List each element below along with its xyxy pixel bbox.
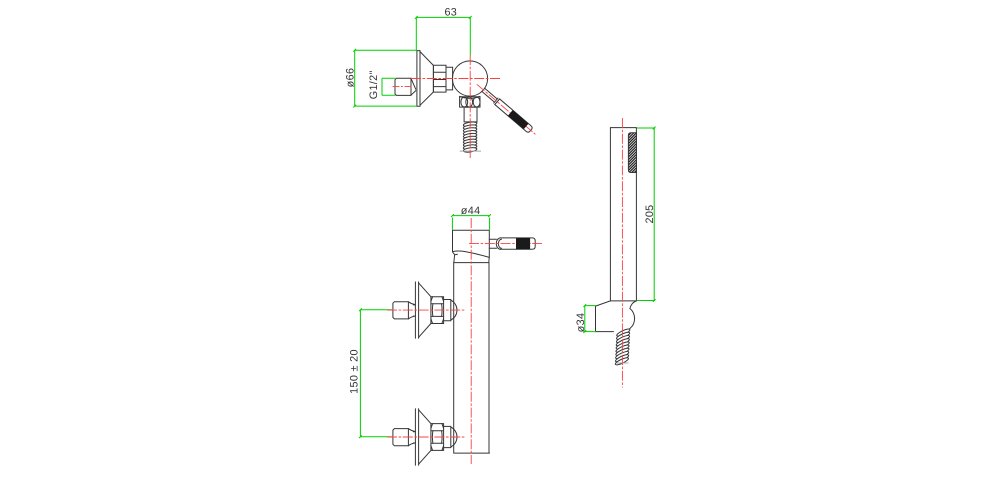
- thread label G1/2": [368, 70, 396, 99]
- svg-text:G1/2": G1/2": [368, 70, 380, 99]
- handle grip (front): [501, 238, 536, 249]
- shower hose coil (side view): [463, 121, 477, 153]
- hose fitting (side view): [464, 107, 477, 122]
- inlet pipe (side view): [395, 78, 411, 95]
- svg-text:ø44: ø44: [461, 205, 481, 217]
- shower bracket: [596, 301, 614, 332]
- lower wall union: [393, 409, 457, 465]
- red centerline: lower inlet axis: [387, 436, 466, 438]
- wall flange plate (side view): [417, 51, 420, 107]
- handle grip black band (side view): [508, 110, 528, 129]
- svg-text:205: 205: [644, 204, 656, 223]
- red centerline: shower axis: [621, 118, 623, 388]
- dimension ø44: [451, 205, 491, 230]
- hose end break (front): [617, 362, 629, 364]
- dimension ø34: [575, 304, 596, 333]
- dimension 205: [637, 127, 656, 302]
- ball body: [452, 61, 487, 96]
- red centerline: mixer vertical axis: [469, 55, 471, 158]
- shower hose coil (front): [615, 328, 631, 366]
- locking ring (side view): [433, 65, 446, 92]
- red centerline: upper inlet axis: [387, 309, 466, 311]
- red centerline: inlet pipe axis: [393, 86, 413, 88]
- shower wand: [610, 128, 636, 301]
- red centerline: body vertical axis: [470, 218, 472, 464]
- dimension 63: [415, 7, 472, 55]
- handle grip black band (front view): [516, 238, 530, 249]
- svg-text:ø34: ø34: [575, 313, 587, 333]
- union taper (side view): [411, 78, 416, 95]
- svg-text:ø66: ø66: [344, 68, 356, 88]
- cartridge cap: [453, 230, 490, 257]
- svg-text:63: 63: [444, 7, 457, 19]
- handle collar (front): [496, 238, 501, 249]
- spacer cylinder (side view): [446, 67, 453, 90]
- dimension ø66: [344, 49, 417, 108]
- hose break line (side view): [460, 150, 481, 152]
- spray face: [628, 133, 636, 173]
- red centerline: handle axis (front): [469, 243, 542, 245]
- dimension 150 ± 20: [349, 308, 392, 438]
- body transition: [454, 255, 489, 263]
- red centerline: mixer horizontal axis: [411, 78, 500, 80]
- body cylinder: [454, 263, 490, 454]
- svg-text:150 ± 20: 150 ± 20: [349, 349, 361, 394]
- flange cone (side view): [420, 52, 433, 106]
- red centerline: handle axis: [477, 84, 536, 134]
- centerlines overlay: [387, 55, 622, 464]
- handle stem (front): [489, 239, 496, 248]
- hose nut (side view): [460, 97, 480, 107]
- upper wall union: [393, 282, 457, 338]
- handle (side view): [481, 87, 533, 133]
